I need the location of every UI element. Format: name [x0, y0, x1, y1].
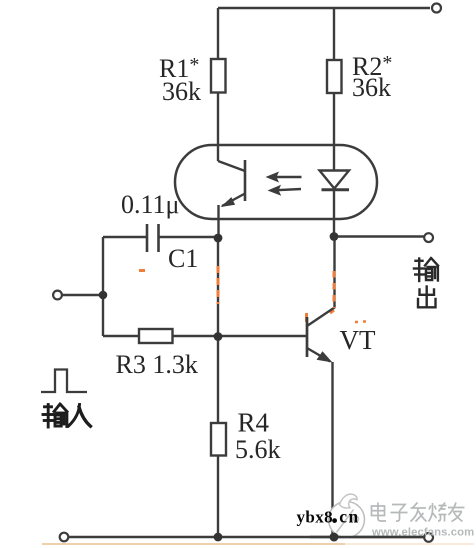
- svg-text:ybx8: ybx8: [297, 508, 334, 527]
- svg-text:5.6k: 5.6k: [235, 435, 281, 464]
- svg-text:cn: cn: [339, 507, 360, 527]
- svg-text:R4: R4: [238, 408, 270, 438]
- svg-text:VT: VT: [340, 325, 376, 355]
- svg-text:www.elecfans.com: www.elecfans.com: [371, 527, 474, 539]
- svg-text:C1: C1: [168, 244, 198, 273]
- svg-text:36k: 36k: [162, 77, 201, 106]
- svg-text:0.11μ: 0.11μ: [121, 190, 179, 219]
- svg-text:36k: 36k: [352, 73, 391, 102]
- svg-text:R3 1.3k: R3 1.3k: [116, 350, 198, 379]
